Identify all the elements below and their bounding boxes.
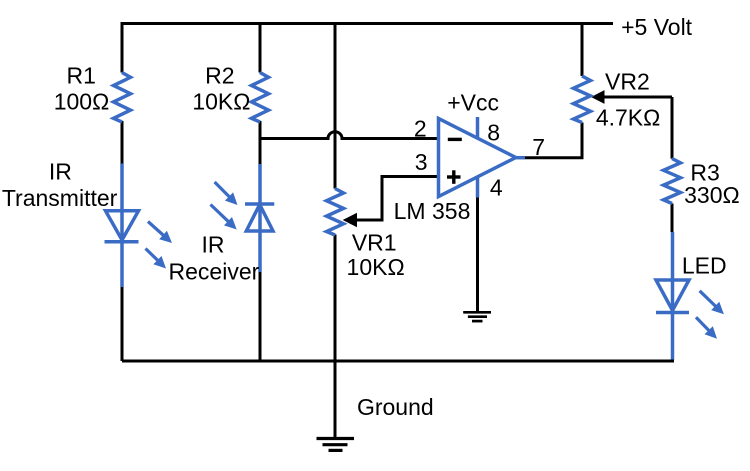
svg-text:VR2: VR2 [605,69,650,95]
svg-text:Ground: Ground [357,394,434,420]
svg-text:4.7KΩ: 4.7KΩ [596,105,661,131]
svg-text:100Ω: 100Ω [54,89,110,115]
svg-text:R2: R2 [205,63,234,89]
svg-text:330Ω: 330Ω [684,182,740,208]
svg-text:10KΩ: 10KΩ [192,89,250,115]
svg-text:IR: IR [49,158,72,184]
svg-text:+Vcc: +Vcc [447,90,499,116]
svg-text:3: 3 [415,149,428,175]
svg-text:IR: IR [202,232,225,258]
svg-text:8: 8 [487,120,500,146]
svg-text:R1: R1 [66,63,95,89]
svg-text:2: 2 [414,116,427,142]
svg-text:VR1: VR1 [352,229,397,255]
svg-text:Transmitter: Transmitter [2,185,118,211]
svg-text:7: 7 [532,134,545,160]
svg-text:10KΩ: 10KΩ [347,254,405,280]
svg-text:LED: LED [682,253,727,279]
svg-text:4: 4 [490,175,503,201]
svg-text:Receiver: Receiver [169,259,260,285]
svg-text:LM 358: LM 358 [394,198,471,224]
svg-text:+5 Volt: +5 Volt [621,14,693,40]
